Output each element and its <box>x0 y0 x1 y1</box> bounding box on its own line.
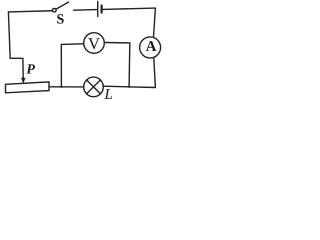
svg-text:A: A <box>146 39 157 55</box>
battery short plate <box>100 6 102 13</box>
wire top-left to switch <box>8 11 52 12</box>
node junction right branch <box>128 43 131 87</box>
wire ammeter to bottom-right corner <box>154 58 156 88</box>
lamp L cross stroke 2 <box>87 80 101 94</box>
node junction dot left <box>60 86 62 88</box>
battery long plate <box>97 2 99 17</box>
wire lamp to rheostat <box>49 86 84 88</box>
svg-text:S: S <box>57 12 65 27</box>
lamp L circle <box>84 77 104 97</box>
node junction dot right <box>128 86 130 88</box>
wire rheostat arrow shaft <box>22 58 24 79</box>
wire voltmeter right lead <box>104 42 130 44</box>
wire switch to battery <box>74 9 98 12</box>
wire battery to top-right corner <box>103 8 156 9</box>
lamp L cross stroke 1 <box>87 80 101 94</box>
svg-text:L: L <box>104 87 113 103</box>
node junction left branch <box>60 44 62 87</box>
ammeter A circle <box>140 37 161 58</box>
wire voltmeter left lead <box>61 43 83 46</box>
wire left vertical <box>8 12 22 58</box>
svg-text:V: V <box>88 34 100 53</box>
rheostat P body <box>6 82 50 93</box>
switch S pivot <box>53 8 57 12</box>
rheostat P wiper arrowhead <box>21 78 25 84</box>
wire right vertical to ammeter <box>154 8 156 37</box>
switch S blade <box>56 2 69 9</box>
svg-text:P: P <box>26 62 35 77</box>
voltmeter V circle <box>84 33 105 54</box>
wire bottom right segment <box>103 86 155 87</box>
